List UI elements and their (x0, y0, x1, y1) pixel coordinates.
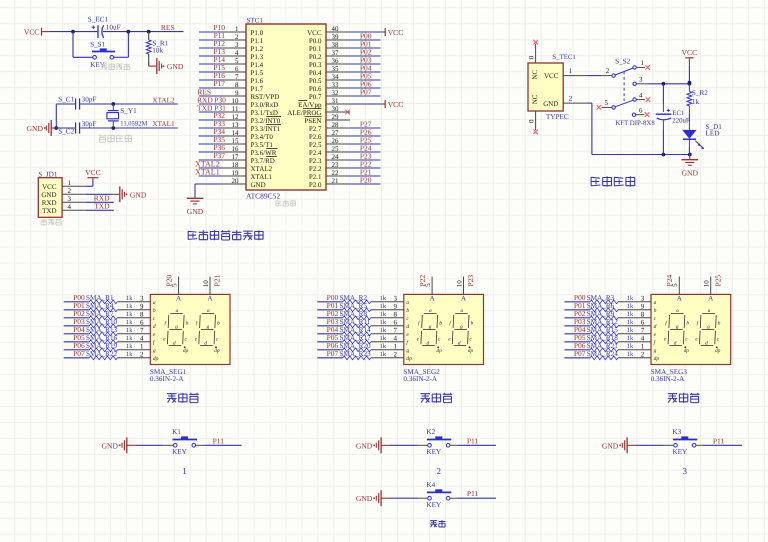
svg-text:15: 15 (232, 137, 240, 145)
svg-text:3: 3 (394, 295, 398, 303)
svg-text:1k: 1k (126, 319, 133, 326)
svg-text:VCC: VCC (42, 183, 57, 191)
svg-text:29: 29 (332, 113, 340, 121)
svg-text:0: 0 (528, 55, 536, 59)
svg-text:8: 8 (641, 311, 645, 319)
svg-text:P0.6: P0.6 (309, 85, 322, 93)
svg-text:0.36IN-2-A: 0.36IN-2-A (651, 375, 686, 383)
svg-text:b: b (471, 320, 474, 326)
svg-text:P22: P22 (418, 275, 427, 287)
svg-text:6: 6 (140, 319, 144, 327)
svg-text:30pF: 30pF (82, 120, 97, 128)
svg-text:SMA_R13: SMA_R13 (86, 326, 118, 334)
svg-text:6: 6 (639, 107, 643, 115)
svg-text:220uF: 220uF (672, 118, 690, 125)
svg-text:A: A (708, 295, 714, 303)
svg-text:d: d (153, 324, 156, 330)
svg-text:16: 16 (232, 145, 240, 153)
svg-text:b: b (153, 308, 156, 314)
svg-text:b: b (217, 320, 220, 326)
svg-text:21: 21 (332, 177, 340, 185)
svg-text:11.0592M: 11.0592M (120, 120, 147, 127)
svg-text:A: A (207, 295, 213, 303)
svg-text:NC: NC (531, 94, 539, 104)
svg-text:P3.5/T1: P3.5/T1 (251, 141, 274, 149)
svg-text:24: 24 (332, 153, 340, 161)
svg-text:7: 7 (140, 327, 144, 335)
svg-text:1k: 1k (627, 327, 634, 334)
svg-text:GND: GND (130, 190, 147, 199)
svg-text:VCC: VCC (85, 168, 101, 177)
svg-text:17: 17 (232, 153, 240, 161)
svg-text:P2.3: P2.3 (309, 157, 322, 165)
svg-text:2: 2 (606, 67, 610, 75)
svg-text:P17: P17 (213, 79, 225, 88)
svg-text:GND: GND (602, 441, 619, 450)
svg-text:1: 1 (641, 343, 645, 351)
svg-text:P0.4: P0.4 (309, 69, 322, 77)
svg-text:dp: dp (684, 348, 690, 354)
svg-text:2: 2 (235, 33, 239, 41)
svg-text:g: g (406, 348, 409, 354)
svg-text:NC: NC (531, 70, 539, 80)
svg-text:3: 3 (683, 466, 688, 476)
svg-text:KFT DIP-8X8: KFT DIP-8X8 (615, 120, 655, 127)
svg-text:SMA_R24: SMA_R24 (587, 350, 619, 358)
svg-text:VCC: VCC (388, 100, 404, 109)
svg-text:GND: GND (543, 100, 558, 108)
svg-text:7: 7 (394, 327, 398, 335)
svg-text:P11: P11 (713, 436, 725, 445)
svg-text:g: g (207, 324, 210, 330)
svg-text:8: 8 (140, 311, 144, 319)
svg-text:19: 19 (232, 169, 240, 177)
svg-text:34: 34 (332, 73, 340, 81)
svg-text:4: 4 (235, 49, 239, 57)
svg-text:4: 4 (140, 335, 144, 343)
svg-text:SMA_R22: SMA_R22 (86, 350, 118, 358)
svg-text:1k: 1k (380, 327, 387, 334)
svg-text:3: 3 (235, 41, 239, 49)
svg-text:XTAL1: XTAL1 (195, 167, 220, 176)
svg-text:32: 32 (332, 89, 340, 97)
svg-text:SMA_R20: SMA_R20 (340, 342, 372, 350)
svg-text:P07: P07 (327, 349, 339, 358)
svg-text:P0.1: P0.1 (309, 45, 322, 53)
svg-text:ATC89C52: ATC89C52 (246, 192, 280, 201)
svg-text:30pF: 30pF (82, 95, 97, 103)
svg-text:2: 2 (68, 187, 72, 195)
svg-text:STC1: STC1 (247, 16, 264, 24)
svg-text:d: d (674, 340, 677, 346)
svg-text:1k: 1k (380, 311, 387, 318)
svg-text:g: g (676, 324, 679, 330)
svg-text:g: g (175, 324, 178, 330)
svg-text:1k: 1k (126, 343, 133, 350)
svg-text:P1.2: P1.2 (251, 45, 264, 53)
svg-text:1k: 1k (380, 335, 387, 342)
svg-text:40: 40 (332, 25, 340, 33)
svg-text:dp: dp (214, 348, 220, 354)
svg-text:1k: 1k (380, 319, 387, 326)
svg-text:P1.6: P1.6 (251, 77, 264, 85)
svg-text:dp: dp (437, 348, 443, 354)
svg-text:38: 38 (332, 41, 340, 49)
svg-text:SMA_R8: SMA_R8 (340, 310, 368, 318)
svg-text:a: a (429, 308, 432, 314)
svg-text:P0.0: P0.0 (309, 37, 322, 45)
svg-text:6: 6 (235, 65, 239, 73)
svg-text:TXD: TXD (42, 207, 56, 215)
svg-text:GND: GND (167, 62, 184, 71)
svg-text:KEY: KEY (672, 448, 688, 456)
svg-text:25: 25 (332, 145, 340, 153)
svg-text:1k: 1k (627, 303, 634, 310)
svg-text:P3.4/T0: P3.4/T0 (251, 133, 274, 141)
svg-text:2: 2 (394, 351, 398, 359)
svg-text:a: a (676, 308, 679, 314)
svg-text:g: g (707, 324, 710, 330)
svg-text:37: 37 (332, 49, 340, 57)
svg-text:7: 7 (641, 327, 645, 335)
svg-text:SMA_R10: SMA_R10 (86, 318, 118, 326)
svg-text:18: 18 (232, 161, 240, 169)
svg-text:39: 39 (332, 33, 340, 41)
svg-text:b: b (406, 308, 409, 314)
svg-text:P07: P07 (73, 349, 85, 358)
svg-text:1: 1 (235, 25, 239, 33)
svg-text:13: 13 (232, 121, 240, 129)
svg-text:10k: 10k (152, 47, 163, 55)
svg-text:b: b (186, 320, 189, 326)
svg-text:b: b (718, 320, 721, 326)
svg-text:GND: GND (251, 181, 266, 189)
svg-text:10: 10 (455, 280, 463, 288)
svg-text:P1.0: P1.0 (251, 29, 264, 37)
svg-text:28: 28 (332, 121, 340, 129)
svg-text:a: a (461, 308, 464, 314)
svg-text:3: 3 (641, 295, 645, 303)
svg-text:dp: dp (468, 348, 474, 354)
svg-text:1k: 1k (627, 343, 634, 350)
svg-text:P1.5: P1.5 (251, 69, 264, 77)
svg-text:VCC: VCC (388, 28, 404, 37)
svg-text:A: A (429, 295, 435, 303)
svg-text:VCC: VCC (24, 28, 40, 37)
svg-text:SMA_R4: SMA_R4 (86, 302, 114, 310)
svg-text:TYPEC: TYPEC (546, 113, 569, 121)
svg-text:d: d (705, 340, 708, 346)
svg-text:S_Y1: S_Y1 (120, 107, 137, 115)
svg-text:P0.7: P0.7 (309, 93, 322, 101)
svg-text:P0.3: P0.3 (309, 61, 322, 69)
svg-text:GND: GND (356, 441, 373, 450)
svg-text:S_C1: S_C1 (58, 95, 74, 103)
svg-text:LED: LED (706, 129, 720, 137)
svg-text:22: 22 (332, 169, 340, 177)
svg-text:35: 35 (332, 65, 340, 73)
svg-text:26: 26 (332, 137, 340, 145)
svg-text:36: 36 (332, 57, 340, 65)
svg-text:GND: GND (41, 191, 56, 199)
svg-text:4: 4 (394, 335, 398, 343)
svg-text:A: A (461, 295, 467, 303)
svg-text:P21: P21 (213, 275, 222, 287)
svg-text:g: g (654, 348, 657, 354)
svg-text:d: d (406, 324, 409, 330)
svg-text:1k: 1k (126, 335, 133, 342)
svg-text:RST/VPD: RST/VPD (251, 93, 280, 101)
svg-text:1k: 1k (692, 98, 700, 106)
svg-text:1k: 1k (380, 343, 387, 350)
svg-text:a: a (406, 300, 409, 306)
svg-text:K3: K3 (672, 428, 681, 436)
svg-text:EA/Vpp: EA/Vpp (298, 101, 322, 109)
svg-text:EC1: EC1 (672, 110, 684, 117)
svg-text:P11: P11 (213, 436, 225, 445)
svg-text:KEY: KEY (172, 448, 188, 456)
svg-text:ALE/PROG: ALE/PROG (287, 109, 321, 117)
svg-text:8: 8 (394, 311, 398, 319)
svg-text:10: 10 (232, 97, 240, 105)
svg-text:P1.4: P1.4 (251, 61, 264, 69)
svg-text:P2.2: P2.2 (309, 165, 322, 173)
svg-text:6: 6 (641, 319, 645, 327)
svg-text:P1.7: P1.7 (251, 85, 264, 93)
svg-text:2: 2 (569, 95, 573, 103)
svg-text:g: g (460, 324, 463, 330)
svg-text:SMA_R11: SMA_R11 (340, 318, 371, 326)
svg-text:P20: P20 (360, 176, 372, 185)
svg-text:10: 10 (202, 280, 210, 288)
svg-text:1: 1 (182, 466, 187, 476)
svg-text:1k: 1k (627, 351, 634, 358)
svg-text:d: d (654, 324, 657, 330)
svg-text:GND: GND (682, 168, 699, 177)
svg-text:31: 31 (332, 97, 340, 105)
svg-text:GND: GND (102, 441, 119, 450)
svg-text:1: 1 (394, 343, 398, 351)
svg-text:1k: 1k (627, 295, 634, 302)
svg-text:7: 7 (235, 73, 239, 81)
svg-text:b: b (686, 320, 689, 326)
svg-text:TXD: TXD (94, 202, 110, 211)
svg-text:A: A (176, 295, 182, 303)
svg-text:0.36IN-2-A: 0.36IN-2-A (403, 375, 438, 383)
svg-text:b: b (654, 308, 657, 314)
svg-text:SMA_R1: SMA_R1 (86, 294, 114, 302)
svg-text:P3.0/RxD: P3.0/RxD (251, 101, 279, 109)
svg-text:P2.0: P2.0 (309, 181, 322, 189)
svg-text:1k: 1k (126, 295, 133, 302)
svg-text:SMA_R7: SMA_R7 (86, 310, 114, 318)
svg-text:30: 30 (332, 105, 340, 113)
svg-text:dp: dp (183, 348, 189, 354)
svg-text:1k: 1k (380, 295, 387, 302)
svg-text:P0.2: P0.2 (309, 53, 322, 61)
svg-text:VCC: VCC (682, 48, 698, 57)
svg-text:dp: dp (654, 356, 660, 362)
svg-text:P11: P11 (467, 489, 479, 498)
svg-text:14: 14 (232, 129, 240, 137)
svg-text:6: 6 (394, 319, 398, 327)
svg-text:5: 5 (235, 57, 239, 65)
svg-text:2: 2 (437, 466, 442, 476)
svg-text:0: 0 (528, 119, 536, 123)
svg-text:8: 8 (235, 81, 239, 89)
svg-text:1k: 1k (126, 303, 133, 310)
svg-text:23: 23 (332, 161, 340, 169)
svg-text:3: 3 (140, 295, 144, 303)
svg-text:P3.6/WR: P3.6/WR (251, 149, 277, 157)
svg-text:K4: K4 (426, 481, 435, 489)
svg-text:VCC: VCC (307, 29, 322, 37)
svg-text:SMA_R6: SMA_R6 (587, 302, 615, 310)
svg-text:P23: P23 (466, 275, 475, 287)
svg-text:a: a (153, 300, 156, 306)
svg-text:P11: P11 (467, 436, 479, 445)
svg-text:a: a (708, 308, 711, 314)
svg-text:9: 9 (641, 303, 645, 311)
svg-text:d: d (204, 340, 207, 346)
svg-text:P3.7/RD: P3.7/RD (251, 157, 275, 165)
svg-text:SMA_R2: SMA_R2 (340, 294, 368, 302)
svg-text:PSEN: PSEN (304, 117, 321, 125)
svg-text:SMA_R3: SMA_R3 (587, 294, 615, 302)
svg-text:a: a (207, 308, 210, 314)
svg-text:VCC: VCC (544, 72, 559, 80)
svg-text:1: 1 (140, 343, 144, 351)
svg-text:GND: GND (27, 124, 44, 133)
svg-text:RXD: RXD (42, 199, 57, 207)
svg-text:P2.4: P2.4 (309, 149, 322, 157)
svg-text:GND: GND (187, 207, 204, 216)
svg-text:XTAL1: XTAL1 (152, 120, 175, 128)
svg-text:S_R2: S_R2 (692, 89, 708, 97)
svg-text:A: A (677, 295, 683, 303)
svg-text:g: g (429, 324, 432, 330)
svg-text:P1.3: P1.3 (251, 53, 264, 61)
svg-text:dp: dp (715, 348, 721, 354)
svg-text:K2: K2 (426, 428, 435, 436)
svg-text:1k: 1k (126, 311, 133, 318)
svg-text:1k: 1k (627, 335, 634, 342)
svg-text:d: d (173, 340, 176, 346)
svg-text:SMA_R17: SMA_R17 (340, 334, 372, 342)
svg-text:SMA_R18: SMA_R18 (587, 334, 619, 342)
svg-text:10: 10 (703, 280, 711, 288)
svg-text:P07: P07 (574, 349, 586, 358)
svg-text:2: 2 (641, 351, 645, 359)
svg-text:KEY: KEY (426, 501, 442, 509)
svg-text:S_C2: S_C2 (58, 128, 74, 136)
svg-text:K1: K1 (172, 428, 181, 436)
svg-text:a: a (176, 308, 179, 314)
svg-text:SMA_R12: SMA_R12 (587, 318, 619, 326)
svg-text:RES: RES (161, 23, 175, 32)
svg-text:SMA_R23: SMA_R23 (340, 350, 372, 358)
svg-text:SMA_R19: SMA_R19 (86, 342, 118, 350)
svg-text:10uF: 10uF (106, 23, 121, 31)
svg-text:SMA_R21: SMA_R21 (587, 342, 619, 350)
svg-text:KEY: KEY (426, 448, 442, 456)
svg-text:1k: 1k (126, 327, 133, 334)
svg-text:4: 4 (641, 335, 645, 343)
svg-text:S_S2: S_S2 (615, 57, 631, 65)
svg-text:XTAL2: XTAL2 (251, 165, 273, 173)
svg-text:b: b (439, 320, 442, 326)
svg-text:0.36IN-2-A: 0.36IN-2-A (150, 375, 185, 383)
svg-text:XTAL2: XTAL2 (152, 96, 175, 104)
svg-text:TXD: TXD (197, 104, 213, 113)
svg-text:1k: 1k (627, 319, 634, 326)
svg-text:S_S1: S_S1 (90, 40, 106, 48)
svg-text:4: 4 (68, 203, 72, 211)
svg-text:a: a (654, 300, 657, 306)
svg-text:P1.1: P1.1 (251, 37, 264, 45)
svg-text:SMA_R14: SMA_R14 (340, 326, 372, 334)
svg-text:XTAL1: XTAL1 (251, 173, 273, 181)
svg-text:12: 12 (232, 113, 240, 121)
svg-text:d: d (427, 340, 430, 346)
svg-text:1k: 1k (380, 303, 387, 310)
svg-text:P3.3/INT1: P3.3/INT1 (251, 125, 281, 133)
svg-text:1: 1 (569, 67, 573, 75)
svg-text:SMA_R9: SMA_R9 (587, 310, 615, 318)
svg-text:P24: P24 (665, 275, 674, 287)
svg-text:1: 1 (68, 179, 72, 187)
svg-text:1k: 1k (380, 351, 387, 358)
svg-text:1: 1 (641, 59, 645, 67)
svg-text:GND: GND (356, 494, 373, 503)
svg-text:20: 20 (232, 177, 240, 185)
svg-text:P07: P07 (360, 88, 372, 97)
svg-text:9: 9 (235, 89, 239, 97)
svg-text:SMA_R5: SMA_R5 (340, 302, 368, 310)
svg-text:P20: P20 (165, 275, 174, 287)
svg-text:P2.6: P2.6 (309, 133, 322, 141)
svg-text:27: 27 (332, 129, 340, 137)
svg-text:P25: P25 (713, 275, 722, 287)
svg-text:dp: dp (406, 356, 412, 362)
svg-text:4: 4 (639, 91, 643, 99)
svg-text:P2.7: P2.7 (309, 125, 322, 133)
svg-text:g: g (153, 348, 156, 354)
svg-text:S_EC1: S_EC1 (88, 16, 109, 24)
svg-text:11: 11 (232, 105, 239, 113)
svg-text:33: 33 (332, 81, 340, 89)
svg-text:9: 9 (140, 303, 144, 311)
svg-text:3: 3 (639, 75, 643, 83)
svg-text:SMA_R16: SMA_R16 (86, 334, 118, 342)
svg-text:P2.5: P2.5 (309, 141, 322, 149)
svg-text:P3.2/INT0: P3.2/INT0 (251, 117, 281, 125)
svg-text:dp: dp (153, 356, 159, 362)
svg-text:1k: 1k (126, 351, 133, 358)
svg-text:d: d (458, 340, 461, 346)
svg-text:2: 2 (140, 351, 144, 359)
svg-text:S_TEC1: S_TEC1 (552, 54, 575, 61)
svg-text:P0.5: P0.5 (309, 77, 322, 85)
svg-text:1k: 1k (627, 311, 634, 318)
svg-text:P3.1/TxD: P3.1/TxD (251, 109, 278, 117)
svg-text:SMA_R15: SMA_R15 (587, 326, 619, 334)
svg-text:3: 3 (68, 195, 72, 203)
svg-text:9: 9 (394, 303, 398, 311)
svg-text:5: 5 (605, 99, 609, 107)
svg-text:P2.1: P2.1 (309, 173, 322, 181)
